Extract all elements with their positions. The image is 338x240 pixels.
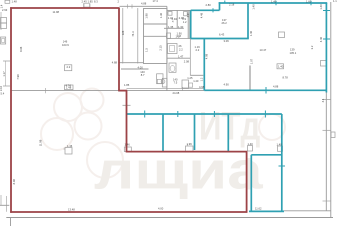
svg-text:3.2: 3.2 xyxy=(310,45,314,49)
svg-text:103.9: 103.9 xyxy=(62,43,69,47)
svg-text:105.1: 105.1 xyxy=(290,51,297,55)
svg-text:1.48: 1.48 xyxy=(66,85,72,89)
svg-text:1.25: 1.25 xyxy=(187,76,193,80)
svg-text:2.45: 2.45 xyxy=(82,0,88,4)
svg-text:4.88: 4.88 xyxy=(273,84,279,88)
svg-text:1.60: 1.60 xyxy=(306,0,312,3)
svg-text:2.08: 2.08 xyxy=(184,60,190,64)
svg-text:8.06: 8.06 xyxy=(19,46,23,52)
svg-text:1.46: 1.46 xyxy=(67,144,73,148)
svg-text:74.3: 74.3 xyxy=(131,31,135,37)
svg-text:8.3: 8.3 xyxy=(94,0,98,3)
svg-text:1.40: 1.40 xyxy=(248,142,254,146)
svg-text:2.2: 2.2 xyxy=(67,65,71,69)
svg-text:1.4: 1.4 xyxy=(0,4,4,8)
svg-text:1.5: 1.5 xyxy=(145,48,149,52)
svg-text:2.18: 2.18 xyxy=(229,3,235,7)
svg-text:2.80: 2.80 xyxy=(206,3,212,7)
svg-text:3.10: 3.10 xyxy=(0,85,3,91)
svg-text:1.2: 1.2 xyxy=(183,20,187,24)
svg-text:1.2: 1.2 xyxy=(200,77,204,81)
svg-text:1.40: 1.40 xyxy=(193,79,199,83)
svg-text:24.08: 24.08 xyxy=(173,91,180,95)
svg-text:7.98: 7.98 xyxy=(16,74,20,80)
svg-text:13.47: 13.47 xyxy=(260,48,267,52)
svg-text:8.7: 8.7 xyxy=(141,73,145,77)
svg-text:4.00: 4.00 xyxy=(158,206,164,210)
svg-text:6.43: 6.43 xyxy=(219,33,225,37)
svg-text:4.40: 4.40 xyxy=(319,36,323,42)
svg-text:1.98: 1.98 xyxy=(145,13,149,19)
svg-text:1.07: 1.07 xyxy=(249,58,253,64)
svg-text:2.2: 2.2 xyxy=(196,48,200,52)
svg-text:1.47: 1.47 xyxy=(178,55,184,59)
svg-text:4.88: 4.88 xyxy=(112,60,118,64)
svg-text:11.62: 11.62 xyxy=(255,207,262,211)
svg-text:4.00: 4.00 xyxy=(138,66,144,70)
svg-text:4.4: 4.4 xyxy=(321,98,325,102)
svg-text:1.46: 1.46 xyxy=(125,142,131,146)
svg-text:8.08: 8.08 xyxy=(12,179,16,185)
svg-text:4.0: 4.0 xyxy=(186,13,190,17)
svg-text:4.08: 4.08 xyxy=(205,53,209,59)
svg-text:17.4: 17.4 xyxy=(153,0,159,3)
svg-text:1.40: 1.40 xyxy=(277,143,283,147)
svg-text:1.1: 1.1 xyxy=(333,0,337,3)
svg-text:лщиа: лщиа xyxy=(94,141,263,200)
svg-text:4.98: 4.98 xyxy=(199,85,205,89)
svg-text:4.48: 4.48 xyxy=(199,12,203,18)
svg-text:7.5: 7.5 xyxy=(174,81,178,85)
svg-text:1.40: 1.40 xyxy=(249,30,253,36)
svg-text:4.90: 4.90 xyxy=(224,82,230,86)
svg-text:2.2: 2.2 xyxy=(179,48,183,52)
svg-text:1.40: 1.40 xyxy=(278,64,284,68)
svg-text:1.2: 1.2 xyxy=(177,34,181,38)
svg-text:126: 126 xyxy=(121,30,125,35)
svg-text:13.48: 13.48 xyxy=(68,208,75,212)
svg-text:1.85: 1.85 xyxy=(124,83,130,87)
svg-text:26.2: 26.2 xyxy=(222,21,228,25)
svg-text:1.40: 1.40 xyxy=(319,4,323,10)
svg-text:1.40: 1.40 xyxy=(271,0,277,3)
svg-text:3.06: 3.06 xyxy=(224,39,230,43)
svg-text:1.96: 1.96 xyxy=(187,142,193,146)
svg-text:1.17: 1.17 xyxy=(2,71,6,77)
svg-text:1.35: 1.35 xyxy=(168,25,174,29)
svg-text:1.30: 1.30 xyxy=(178,25,184,29)
svg-text:8.78: 8.78 xyxy=(283,75,289,79)
svg-text:2.15: 2.15 xyxy=(159,45,163,51)
svg-text:1.30: 1.30 xyxy=(159,12,163,18)
svg-text:1.85: 1.85 xyxy=(88,0,94,4)
svg-text:139: 139 xyxy=(290,48,295,52)
svg-text:1.40: 1.40 xyxy=(252,4,256,10)
svg-text:4.88: 4.88 xyxy=(141,2,147,6)
svg-text:1.48: 1.48 xyxy=(12,0,18,3)
svg-text:11.99: 11.99 xyxy=(39,139,43,146)
svg-text:11.98: 11.98 xyxy=(53,10,60,14)
